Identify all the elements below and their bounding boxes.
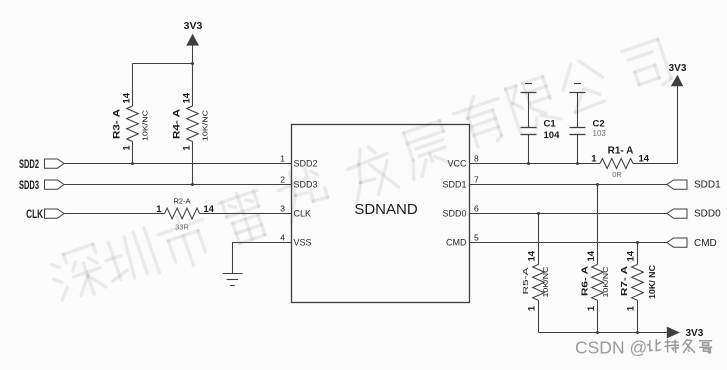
svg-text:1: 1 [280,154,285,164]
wire CLK to R2 [64,213,165,215]
svg-text:CMD: CMD [446,237,467,247]
svg-text:CLK: CLK [26,207,43,221]
junction R7 to CMD [636,241,639,244]
pin 5 CMD [446,233,479,248]
svg-text:SDNAND: SDNAND [354,201,418,218]
svg-text:7: 7 [474,175,479,185]
svg-text:R6- A: R6- A [581,266,590,296]
svg-text:R1- A: R1- A [608,146,634,157]
svg-text:4: 4 [280,233,285,243]
pin 6 SDD0 [442,204,479,219]
power 3V3 top-left [184,20,203,65]
wire SDD3 net [64,184,292,186]
svg-text:1: 1 [181,145,192,151]
svg-text:SDD1: SDD1 [694,180,721,191]
svg-text:VCC: VCC [447,158,467,168]
pin 3 CLK [280,204,311,219]
junction C2 to VCC [576,162,579,165]
svg-text:1: 1 [586,305,597,311]
svg-text:1: 1 [156,204,162,215]
wire SDD1 net [470,184,668,186]
junction R6 to rail [596,331,599,334]
svg-text:1: 1 [121,145,132,151]
resistor R4-A 10K/NC [171,64,209,185]
svg-text:6: 6 [474,204,479,214]
svg-text:14: 14 [626,250,637,261]
svg-text:R3- A: R3- A [111,108,121,139]
svg-text:104: 104 [544,130,561,141]
resistor R7-A 10K/NC [620,243,657,333]
svg-text:1: 1 [626,305,637,311]
svg-text:SDD0: SDD0 [442,208,466,218]
power 3V3 top-right [669,63,687,86]
junction R6 to SDD1 [596,183,599,186]
capacitor C2 103 [570,84,607,164]
port CLK [26,207,64,221]
svg-text:14: 14 [526,250,537,261]
watermark company name [47,39,673,305]
wire SDD0 net [470,213,668,215]
junction R4 to SDD3 net [191,183,194,186]
port SDD3 [19,178,64,192]
wire bottom 3V3 rail [539,332,667,334]
resistor R1-A 0R [591,146,650,180]
port SDD1 [667,180,721,191]
pin 1 SDD2 [280,154,317,169]
svg-text:14: 14 [639,153,650,164]
port CMD [667,238,717,249]
svg-text:3V3: 3V3 [184,20,203,32]
resistor R5-A 10K/NC [523,214,550,333]
svg-text:CMD: CMD [694,238,717,249]
svg-text:10K/ NC: 10K/ NC [648,265,657,299]
svg-text:14: 14 [586,250,597,261]
ground symbol [223,274,243,286]
svg-text:10K/NC: 10K/NC [603,267,610,298]
wire R1 to 3V3 [633,86,678,164]
junction R5 to SDD0 [537,212,540,215]
svg-text:CSDN @: CSDN @ [575,338,647,358]
svg-text:2: 2 [280,175,285,185]
svg-text:103: 103 [593,129,607,138]
pin 7 SDD1 [442,175,479,190]
svg-text:10K/NC: 10K/NC [203,110,210,141]
capacitor C1 104 [521,84,561,164]
svg-text:SDD2: SDD2 [294,158,318,168]
pin 4 VSS [280,233,311,248]
svg-text:1: 1 [526,305,537,311]
pin 2 SDD3 [280,175,317,190]
port SDD2 [19,157,64,171]
svg-text:VSS: VSS [294,237,312,247]
svg-text:CLK: CLK [294,208,312,218]
svg-text:10K/NC: 10K/NC [543,267,550,298]
svg-text:33R: 33R [175,222,189,231]
junction C1 to VCC [527,162,530,165]
port SDD0 [667,209,721,220]
svg-text:10K/NC: 10K/NC [143,110,150,141]
svg-text:SDD3: SDD3 [294,179,318,189]
svg-text:14: 14 [121,92,132,103]
pin 8 VCC [447,154,479,169]
svg-text:SDD3: SDD3 [19,178,39,192]
wire SDD2 net [64,163,292,165]
svg-text:1: 1 [591,153,597,164]
svg-text:5: 5 [474,233,479,243]
resistor R2-A 33R [156,197,214,232]
svg-text:SDD0: SDD0 [694,209,721,220]
wire 3V3 jumper top-left [133,63,193,65]
wire CMD net [470,242,668,244]
IC U1 SDNAND [292,125,470,303]
svg-text:0R: 0R [612,170,622,179]
svg-text:R7- A: R7- A [620,266,629,296]
svg-text:3V3: 3V3 [686,328,704,339]
svg-text:SDD1: SDD1 [442,179,466,189]
svg-text:R2-A: R2-A [173,197,190,206]
wire VSS pin to ground [233,243,292,274]
svg-text:C1: C1 [544,119,557,130]
junction R7 to rail [636,331,639,334]
svg-text:8: 8 [474,154,479,164]
power 3V3 bottom-right [667,327,704,339]
resistor R6-A 10K/NC [581,185,610,333]
wire R2 to CLK pin [200,213,292,215]
junction R3 to SDD2 net [131,162,134,165]
svg-text:14: 14 [181,92,192,103]
svg-text:3V3: 3V3 [669,63,687,74]
svg-text:R5-A: R5-A [523,267,530,295]
resistor R3-A 10K/NC [111,64,149,164]
wire VCC net [470,163,601,165]
svg-text:3: 3 [280,204,285,214]
svg-text:SDD2: SDD2 [19,157,39,171]
svg-text:R4- A: R4- A [171,108,181,139]
